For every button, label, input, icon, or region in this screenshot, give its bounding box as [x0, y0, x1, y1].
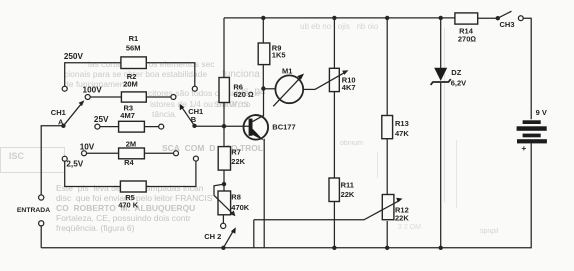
svg-text:R4: R4 [124, 158, 134, 167]
potentiometer R10 [315, 68, 349, 91]
svg-text:620 Ω: 620 Ω [233, 90, 254, 99]
wire 2.5V row [65, 161, 196, 186]
wire 250V top loop [65, 63, 195, 86]
junction base node [222, 124, 226, 128]
junction DZ bottom rail [439, 246, 443, 250]
svg-text:6,2V: 6,2V [451, 79, 466, 88]
svg-text:270Ω: 270Ω [458, 35, 477, 44]
svg-text:4M7: 4M7 [120, 111, 135, 120]
resistor R1 [121, 57, 146, 69]
potentiometer R12 [254, 195, 403, 220]
resistor R3 [119, 121, 145, 132]
node 2.5V contact A-side [62, 156, 67, 161]
svg-text:B: B [191, 115, 197, 124]
wire rail to R13 [386, 18, 388, 116]
junction CH3 pivot [496, 16, 500, 20]
wire emitter to meter node [263, 89, 265, 117]
node 100V contact B-side [171, 95, 176, 100]
svg-text:R11: R11 [341, 181, 354, 190]
svg-text:56M: 56M [126, 44, 141, 53]
resistor R11 [329, 178, 339, 202]
svg-text:10V: 10V [80, 142, 95, 151]
terminal ENTRADA lower [39, 221, 44, 226]
switch CH3 [498, 11, 523, 20]
junction top rail / R9 [261, 16, 265, 20]
svg-text:22K: 22K [395, 213, 409, 222]
svg-text:470 K: 470 K [118, 201, 139, 210]
svg-text:22K: 22K [341, 190, 355, 199]
node 250V contact A-side [62, 86, 67, 91]
node 25V contact A-side [95, 124, 100, 129]
wire 10V row [87, 152, 174, 154]
junction R7/R8 wiper node [222, 182, 226, 186]
meter M1 [273, 74, 304, 107]
node A junction [61, 124, 65, 128]
resistor R6 [219, 78, 229, 103]
resistor R13 [382, 116, 393, 139]
potentiometer R8 [214, 184, 235, 216]
wire rail to R9 [262, 18, 264, 44]
node 2.5V contact B-side [193, 156, 198, 161]
svg-text:A: A [58, 118, 64, 127]
battery B1 9V [517, 120, 547, 143]
svg-text:M1: M1 [282, 67, 292, 76]
wire node A to ENTRADA [41, 126, 63, 195]
wire rail to R10 [333, 18, 335, 68]
wire rail to R6 [223, 18, 225, 78]
wire R11 to bottom rail [333, 202, 335, 248]
wire battery to bottom rail [41, 143, 531, 248]
wire ENTRADA lower to bottom rail [40, 226, 42, 248]
resistor R2 [121, 92, 146, 102]
junction CH2 on bottom rail [221, 246, 225, 250]
svg-text:R13: R13 [395, 119, 409, 128]
junction R12 bottom rail [385, 246, 389, 250]
wire CH3 to right edge [523, 18, 531, 119]
wire 100V row [90, 96, 171, 98]
svg-text:250V: 250V [64, 52, 84, 61]
svg-text:ENTRADA: ENTRADA [17, 207, 50, 214]
terminal ENTRADA upper [39, 195, 44, 200]
svg-text:1K5: 1K5 [272, 51, 286, 60]
wire meter right lead to R10 wiper [304, 88, 315, 90]
resistor R7 [218, 147, 230, 171]
zener diode DZ [431, 68, 451, 85]
wire R8 to CH2 terminal [222, 215, 224, 223]
junction top rail / DZ [439, 16, 443, 20]
svg-text:BC177: BC177 [272, 123, 295, 132]
wire R12 to bottom rail [386, 221, 388, 248]
svg-text:DZ: DZ [451, 68, 461, 77]
wire R9 to meter node [262, 65, 264, 89]
bleed-through ghost text lines [88, 59, 215, 69]
svg-text:47K: 47K [395, 129, 409, 138]
node 10V contact B-side [174, 151, 179, 156]
wire collector to bottom rail [263, 139, 265, 248]
svg-text:100V: 100V [83, 85, 103, 94]
svg-text:20M: 20M [123, 80, 138, 89]
wire R7 to R8 [223, 170, 225, 191]
switch CH1 pole B arm [180, 104, 195, 126]
wire DZ to bottom rail [440, 83, 442, 248]
node B junction [192, 124, 196, 128]
wire R6 to base junction [223, 103, 225, 147]
svg-text:2,5V: 2,5V [66, 160, 83, 169]
svg-text:+: + [521, 143, 526, 153]
svg-text:9 V: 9 V [536, 108, 547, 117]
junction top rail / R10 [332, 16, 336, 20]
wire 25V row [100, 126, 159, 128]
svg-text:CH 2: CH 2 [204, 232, 221, 241]
svg-text:4K7: 4K7 [342, 83, 356, 92]
svg-text:22K: 22K [231, 157, 245, 166]
svg-text:25V: 25V [94, 115, 109, 124]
wire base [224, 125, 250, 127]
svg-text:470K: 470K [231, 203, 250, 212]
svg-text:CH3: CH3 [499, 20, 514, 29]
resistor R5 [120, 181, 146, 192]
node 100V contact A-side [85, 95, 90, 100]
wire top rail [224, 17, 498, 19]
svg-text:R1: R1 [129, 34, 139, 43]
resistor R9 [258, 43, 270, 65]
wire R10 to R11 [333, 92, 335, 178]
junction top rail / R13 [385, 16, 389, 20]
svg-text:R8: R8 [231, 193, 241, 202]
node 25V contact B-side [159, 124, 164, 129]
svg-text:R7: R7 [231, 148, 241, 157]
svg-text:CH1: CH1 [51, 108, 66, 117]
resistor R4 [119, 148, 145, 159]
wire node B to base line [195, 125, 225, 127]
node 10V contact A-side [82, 151, 87, 156]
switch CH1 pole A arm [63, 100, 84, 126]
transistor Q1 BC177 [244, 115, 269, 141]
wire R12 wiper drop to bottom rail [253, 220, 255, 248]
node 250V contact B-side [192, 86, 197, 91]
svg-text:2M: 2M [126, 139, 136, 148]
junction R11 bottom rail [332, 246, 336, 250]
wire rail to DZ [440, 18, 442, 69]
terminal CH2 contact [221, 223, 226, 228]
wire R13 to R12 [386, 139, 388, 196]
wire meter left lead [263, 88, 275, 90]
switch CH2 arm [223, 227, 235, 248]
resistor R14 [455, 13, 478, 24]
junction meter node [261, 86, 265, 90]
